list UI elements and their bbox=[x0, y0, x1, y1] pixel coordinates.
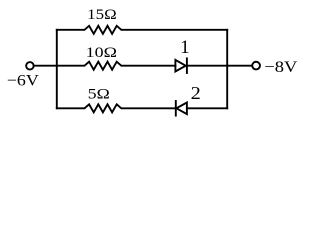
svg-text:1: 1 bbox=[180, 37, 190, 58]
svg-text:5Ω: 5Ω bbox=[88, 87, 110, 103]
svg-text:15Ω: 15Ω bbox=[87, 7, 117, 23]
svg-text:10Ω: 10Ω bbox=[86, 45, 117, 61]
svg-text:2: 2 bbox=[191, 83, 201, 103]
svg-text:−6V: −6V bbox=[7, 72, 39, 89]
svg-text:−8V: −8V bbox=[264, 59, 298, 76]
